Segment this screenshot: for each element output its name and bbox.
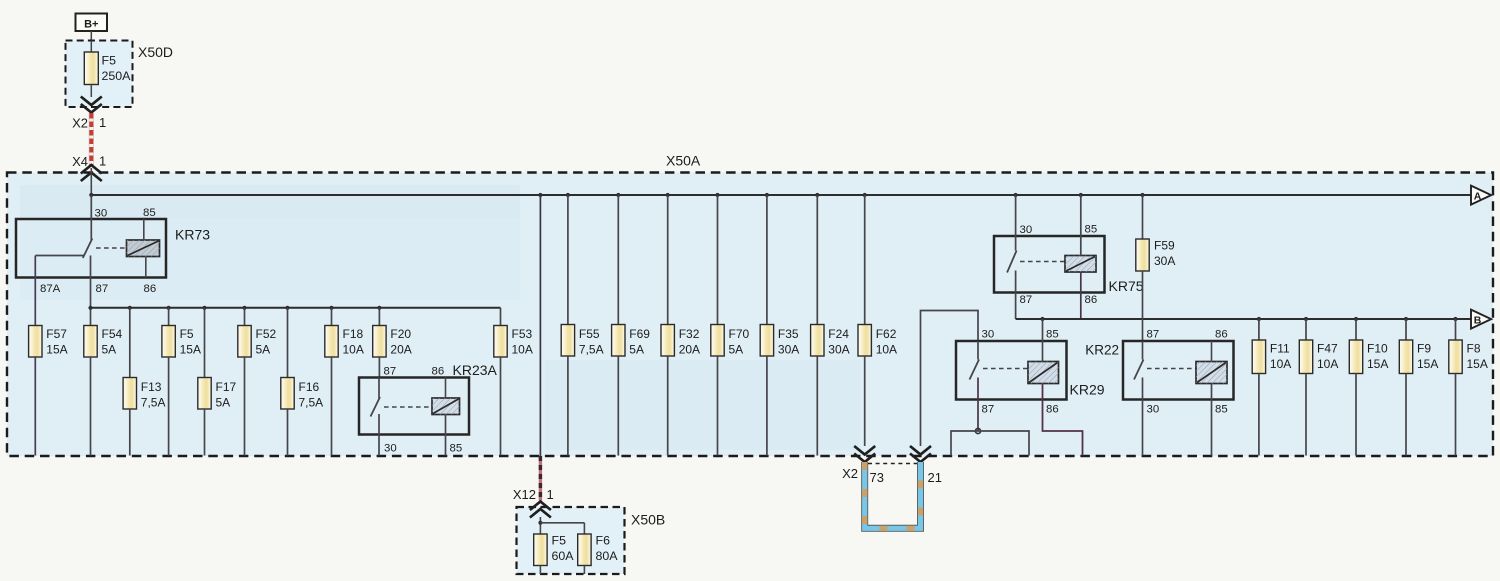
svg-text:F20: F20: [390, 327, 411, 341]
connector arrow A: [1471, 186, 1491, 205]
svg-text:KR29: KR29: [1070, 382, 1105, 398]
wire KR29-87 branch right to border: [978, 431, 1029, 456]
junction bus A / F55: [566, 193, 570, 197]
dashed actuator link KR75: [1020, 261, 1065, 263]
junction bus A / F32: [666, 193, 670, 197]
wire loop X2-73 to X2-21 (blue/tan striped): [865, 462, 921, 528]
fuse F8 15A: [1449, 319, 1488, 456]
wire KR29 pin87 down to junction: [977, 378, 979, 432]
svg-text:F69: F69: [629, 327, 650, 341]
svg-text:X4: X4: [72, 154, 88, 169]
svg-text:7,5A: 7,5A: [579, 343, 604, 357]
bus B (secondary rail from KR75-87): [1016, 318, 1471, 320]
junction bus C / F5: [167, 306, 171, 310]
svg-text:87: 87: [1020, 294, 1033, 306]
wire KR29 pin30 jog to X2-21: [921, 311, 979, 447]
fuse F6 80A in X50B: [578, 534, 619, 575]
junction bus B / KR29-85: [1040, 317, 1044, 321]
fuse F57 15A: [29, 326, 68, 456]
svg-text:5A: 5A: [216, 396, 231, 410]
junction bus C / F18: [329, 306, 333, 310]
fuse F24 30A: [811, 195, 850, 456]
svg-text:15A: 15A: [1467, 357, 1488, 371]
fuse/relay box X50A (dashed enclosure): [7, 153, 1493, 457]
svg-text:20A: 20A: [679, 343, 700, 357]
connector arrow B: [1471, 310, 1491, 329]
svg-text:85: 85: [1046, 329, 1059, 341]
connector X12 pin 1 (chevrons): [513, 487, 554, 518]
relay KR23A: [359, 362, 498, 435]
junction bus A / KR75-85: [1079, 193, 1083, 197]
svg-text:30: 30: [1147, 404, 1160, 416]
svg-text:X12: X12: [513, 487, 536, 502]
svg-text:KR75: KR75: [1109, 278, 1144, 294]
fuse F35 30A: [760, 195, 799, 456]
junction bus B / F8: [1453, 317, 1457, 321]
svg-text:F54: F54: [102, 327, 123, 341]
fuse F55 7,5A: [561, 195, 603, 456]
fuse F59 30A: [1136, 195, 1176, 271]
svg-text:F5: F5: [180, 327, 194, 341]
fuse F32 20A: [661, 195, 700, 456]
svg-text:F13: F13: [141, 380, 162, 394]
wire KR23A pin85 to border: [445, 415, 447, 456]
fuse F17 5A: [198, 308, 237, 456]
bus A (main feed rail): [91, 194, 1471, 196]
wire KR73 87A contact: [35, 256, 84, 326]
wire KR23A coil to pin86 (internal): [445, 378, 447, 399]
junction bus C / F17: [202, 306, 206, 310]
svg-text:7,5A: 7,5A: [299, 396, 324, 410]
wire bus A to X12 (drop): [539, 195, 541, 456]
coil KR75: [1065, 256, 1096, 273]
svg-text:X50A: X50A: [666, 153, 701, 169]
bus C (left fuse rail from KR73-87): [91, 308, 501, 326]
svg-text:85: 85: [143, 207, 156, 219]
svg-text:5A: 5A: [729, 343, 744, 357]
svg-text:F8: F8: [1467, 342, 1481, 356]
svg-text:87A: 87A: [40, 283, 61, 295]
svg-text:7,5A: 7,5A: [141, 396, 166, 410]
junction bus A / F70: [715, 193, 719, 197]
connector X2 pin 73 (chevrons): [842, 446, 884, 485]
junction bus B / F47: [1304, 317, 1308, 321]
dashed link across X2 loop: [868, 463, 917, 465]
svg-text:F5: F5: [552, 534, 567, 548]
switch blade KR23A: [371, 397, 381, 417]
wire KR73 pin30 from bus A to switch: [90, 195, 92, 241]
svg-text:F16: F16: [299, 380, 320, 394]
coil KR29: [1028, 362, 1059, 384]
svg-text:86: 86: [144, 283, 157, 295]
wire KR29-87 branch left to border: [951, 431, 978, 456]
svg-text:73: 73: [870, 470, 884, 485]
svg-text:F52: F52: [256, 327, 277, 341]
wire X12 striped segment (dark red/pink): [539, 456, 542, 501]
svg-text:F17: F17: [216, 380, 237, 394]
svg-text:KR22: KR22: [1085, 343, 1119, 358]
svg-text:5A: 5A: [102, 343, 117, 357]
svg-text:A: A: [1474, 191, 1482, 203]
fuse F69 5A: [612, 195, 651, 456]
svg-text:250A: 250A: [102, 69, 132, 83]
svg-text:KR23A: KR23A: [453, 362, 498, 378]
fuse box X50D (dashed enclosure): [66, 41, 174, 108]
junction X50B feed: [538, 521, 542, 525]
svg-text:F57: F57: [46, 327, 67, 341]
svg-text:5A: 5A: [256, 343, 271, 357]
coil KR22: [1196, 362, 1227, 384]
dashed actuator link KR29: [983, 368, 1028, 370]
wire KR75 pin30 from bus A to switch: [1015, 195, 1017, 251]
svg-text:B+: B+: [84, 18, 98, 30]
switch blade KR73: [83, 239, 93, 259]
svg-text:60A: 60A: [552, 549, 575, 563]
fuse F18 10A: [325, 308, 364, 456]
wire KR29 pin30 switch (internal): [977, 341, 979, 360]
svg-text:F59: F59: [1154, 239, 1175, 253]
svg-text:86: 86: [432, 366, 445, 378]
svg-text:5A: 5A: [629, 343, 644, 357]
junction bus A / F62: [863, 193, 867, 197]
svg-text:10A: 10A: [1270, 357, 1291, 371]
wire KR75 pin87 down to bus B: [1015, 271, 1017, 320]
wire KR29 pin85 from bus B to coil: [1042, 319, 1044, 362]
switch blade KR22: [1134, 360, 1144, 380]
fuse F10 15A: [1349, 319, 1388, 456]
connector X2 pin 1 (chevrons): [72, 97, 106, 131]
svg-text:30: 30: [982, 329, 995, 341]
junction bus A / X4 feed / KR73-30: [89, 193, 93, 197]
wire KR23A pin87 switch (internal): [378, 378, 380, 399]
svg-text:10A: 10A: [343, 343, 364, 357]
svg-text:85: 85: [1215, 404, 1228, 416]
fuse F70 5A: [711, 195, 750, 456]
junction bus C / F16: [285, 306, 289, 310]
junction bus B / F10: [1354, 317, 1358, 321]
svg-text:87: 87: [96, 283, 109, 295]
junction bus A / F59: [1140, 193, 1144, 197]
relay KR29: [956, 341, 1105, 400]
junction bus C / F13: [128, 306, 132, 310]
svg-text:B: B: [1474, 315, 1482, 327]
fuse F5 60A in X50B: [534, 534, 575, 575]
dashed actuator link KR73: [96, 247, 127, 249]
fuse F5 15A: [162, 308, 201, 456]
junction bus A / X12 drop: [538, 193, 542, 197]
wire X50B feed to F6: [540, 523, 584, 534]
svg-text:20A: 20A: [390, 343, 411, 357]
svg-text:85: 85: [1085, 224, 1098, 236]
svg-text:80A: 80A: [596, 549, 619, 563]
junction bus C / F54: [88, 306, 92, 310]
wire KR73 coil to pin86 (internal): [145, 257, 147, 278]
junction bus C / F52: [242, 306, 246, 310]
fuse F9 15A: [1399, 319, 1438, 456]
relay KR73: [16, 219, 210, 278]
svg-text:F6: F6: [596, 534, 611, 548]
coil KR73: [127, 240, 160, 257]
wire KR22 pin30 to border: [1142, 378, 1144, 456]
svg-text:F70: F70: [729, 327, 750, 341]
wire F59 to KR22 pin87 (crosses bus B): [1142, 271, 1144, 341]
connector X4 pin 1 (chevrons): [72, 154, 106, 182]
svg-text:30A: 30A: [828, 343, 849, 357]
junction KR29-87 branch (ring): [975, 428, 980, 433]
wire X2-1 to X4-1 (red/white striped): [89, 113, 94, 165]
svg-text:F24: F24: [828, 327, 849, 341]
fuse F53 10A: [494, 326, 533, 456]
svg-text:F18: F18: [343, 327, 364, 341]
svg-text:15A: 15A: [46, 343, 67, 357]
junction bus A / F35: [765, 193, 769, 197]
fuse F11 10A: [1252, 319, 1291, 456]
svg-text:15A: 15A: [1417, 357, 1438, 371]
svg-text:X50B: X50B: [631, 512, 665, 528]
fuse F5 250A in X50D: [84, 52, 131, 85]
fuse F62 10A: [858, 195, 897, 446]
svg-text:15A: 15A: [180, 343, 201, 357]
fuse box X50B (dashed enclosure): [517, 507, 666, 574]
wire KR22 coil to pin86 (internal): [1211, 341, 1213, 362]
wire KR75 pin85 from bus A to coil: [1080, 195, 1082, 256]
svg-text:30A: 30A: [778, 343, 799, 357]
svg-text:30: 30: [384, 443, 397, 455]
junction bus B / F11: [1257, 317, 1261, 321]
svg-text:F47: F47: [1317, 342, 1338, 356]
junction bus C / F20: [377, 306, 381, 310]
wire KR22 pin87 switch (internal): [1142, 341, 1144, 360]
svg-text:87: 87: [982, 404, 995, 416]
battery terminal B+: [76, 14, 108, 32]
svg-text:86: 86: [1215, 329, 1228, 341]
wire X12 into X50B: [539, 517, 541, 534]
fuse F16 7,5A: [281, 308, 323, 456]
svg-text:F5: F5: [102, 54, 117, 68]
wire KR22 pin85 to border: [1211, 384, 1213, 456]
junction bus A / F69: [616, 193, 620, 197]
fuse F52 5A: [238, 308, 277, 456]
wire KR29 pin86 down and to border: [1043, 384, 1083, 456]
svg-text:15A: 15A: [1367, 357, 1388, 371]
svg-text:F53: F53: [512, 327, 533, 341]
wire X50D top to fuse F5: [90, 41, 92, 53]
svg-text:85: 85: [450, 443, 463, 455]
svg-text:1: 1: [99, 154, 106, 169]
svg-text:1: 1: [547, 487, 554, 502]
svg-text:86: 86: [1046, 404, 1059, 416]
wire B+ to X50D: [90, 31, 92, 41]
wire X4-1 into X50A to bus A: [90, 168, 92, 195]
junction bus B / F9: [1404, 317, 1408, 321]
wire KR73 coil to pin85 (internal): [143, 219, 145, 240]
dashed actuator link KR23A: [384, 406, 432, 408]
svg-text:87: 87: [384, 366, 397, 378]
svg-text:F32: F32: [679, 327, 700, 341]
relay KR22: [1085, 341, 1233, 400]
fuse F54 5A: [84, 326, 123, 456]
wire KR23A pin30 to border: [378, 414, 380, 456]
fuse F13 7,5A: [123, 308, 165, 456]
svg-text:X2: X2: [72, 116, 88, 131]
svg-text:X2: X2: [842, 466, 858, 481]
connector X2 pin 21 (chevrons): [910, 446, 942, 485]
relay KR75: [994, 236, 1144, 294]
junction bus A / F24: [815, 193, 819, 197]
svg-text:21: 21: [928, 470, 942, 485]
wire KR75 pin86 coil to bus B: [1080, 272, 1082, 319]
fuse F47 10A: [1299, 319, 1338, 456]
svg-text:X50D: X50D: [138, 44, 173, 60]
svg-text:10A: 10A: [1317, 357, 1338, 371]
fuse F20 20A: [373, 308, 412, 378]
svg-text:30: 30: [1020, 224, 1033, 236]
svg-text:10A: 10A: [876, 343, 897, 357]
svg-text:F10: F10: [1367, 342, 1388, 356]
svg-text:30A: 30A: [1154, 254, 1175, 268]
wire KR73 pin87 down to bus C: [90, 256, 92, 326]
svg-text:10A: 10A: [512, 343, 533, 357]
svg-text:F9: F9: [1417, 342, 1431, 356]
svg-text:30: 30: [95, 208, 108, 220]
dashed actuator link KR22: [1147, 368, 1196, 370]
svg-text:KR73: KR73: [175, 227, 210, 243]
svg-text:F55: F55: [579, 327, 600, 341]
junction bus A / KR75-30: [1014, 193, 1018, 197]
wire fuse F5 to connector X2: [90, 85, 92, 98]
coil KR23A: [432, 398, 460, 415]
svg-text:F11: F11: [1270, 342, 1290, 356]
svg-text:86: 86: [1085, 294, 1098, 306]
svg-text:87: 87: [1147, 329, 1160, 341]
svg-text:F35: F35: [778, 327, 799, 341]
svg-text:F62: F62: [876, 327, 897, 341]
switch blade KR29: [970, 360, 980, 380]
svg-text:1: 1: [99, 115, 106, 130]
switch blade KR75: [1007, 251, 1017, 273]
